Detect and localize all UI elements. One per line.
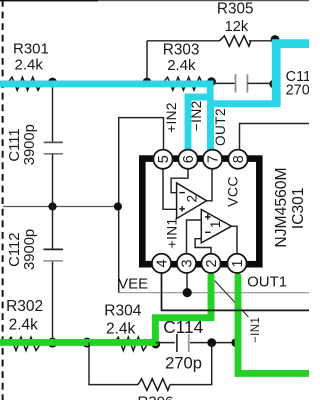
svg-text:C114: C114 (163, 317, 203, 337)
pin 7 circle (203, 150, 222, 169)
svg-text:12k: 12k (225, 19, 249, 35)
svg-text:VCC: VCC (225, 176, 241, 207)
wire R306 branch: down, across, resistor, up (89, 343, 138, 385)
pin 1 circle (227, 254, 246, 273)
wire R305 right to cyan (249, 40, 275, 42)
node dot pin3 / +IN1 (183, 288, 192, 297)
wire +IN1 node horizontal (gray) (119, 292, 309, 294)
resistor R303 (zigzag on cyan rail) (162, 77, 206, 90)
node dot green rail end / C114 left (151, 340, 160, 349)
svg-text:+IN1: +IN1 (164, 218, 179, 249)
svg-text:2: 2 (204, 259, 220, 267)
pin 8 circle (228, 150, 247, 169)
IC301 thick body outline (142, 159, 259, 265)
wire green signal rail (0, 339, 156, 346)
wire R306 right lead up to OUT1 node (170, 343, 212, 385)
svg-text:R304: R304 (104, 302, 141, 319)
pin 6 circle (178, 150, 197, 169)
wire C112 bottom lead (52, 261, 54, 343)
resistor R306 (138, 379, 170, 391)
op-amp U2 + sign (179, 208, 185, 210)
wire R305 branch left vertical (146, 41, 148, 83)
wire +IN2/+IN1 bias node: pin5 top route and left vertical (119, 118, 164, 293)
node dot OUT1 junction (231, 338, 240, 347)
capacitor C113 plates (235, 74, 237, 92)
node dot R305 right junction on cyan corner (271, 35, 280, 44)
wire C114 right lead (190, 342, 236, 344)
svg-text:8: 8 (231, 155, 247, 163)
resistor R305 12k (219, 36, 250, 46)
svg-text:−IN2: −IN2 (189, 100, 204, 131)
pin 2 circle (201, 254, 220, 273)
capacitor C112 plates (43, 248, 63, 250)
svg-text:R306: R306 (138, 394, 174, 401)
leader line -IN1 (215, 281, 249, 318)
pin 5 circle (153, 150, 172, 169)
svg-text:2.4k: 2.4k (106, 321, 136, 338)
svg-text:+IN2: +IN2 (164, 102, 179, 133)
op-amp U2 - sign (179, 192, 185, 194)
wire C114 left lead (156, 342, 175, 344)
op-amp U1 + sign (205, 216, 211, 218)
svg-text:−IN1: −IN1 (249, 317, 262, 343)
wire cyan signal rail to -IN2 (pin 6) (0, 84, 210, 150)
wire op-amp U1 -in to pin 2 (195, 239, 211, 254)
svg-text:1: 1 (208, 221, 223, 229)
wire pin 3 to op-amp U1 +in (187, 220, 202, 254)
node dot R303/C113 junction on cyan rail (207, 77, 216, 86)
wire VEE rail from pin 4 (162, 273, 310, 311)
node dot R303 left junction on cyan rail (143, 78, 152, 87)
wire C111 top lead (52, 84, 54, 142)
wire C113 right lead (247, 82, 273, 84)
svg-text:2.4k: 2.4k (15, 57, 44, 74)
svg-text:NJM4560M: NJM4560M (273, 167, 290, 247)
resistor R302 (zigzag on green rail) (7, 337, 41, 350)
op-amp U1 triangle (201, 210, 231, 243)
wire op-amp U1 output to pin 1 (232, 226, 238, 254)
wire pin 6 to op-amp U2 -in (171, 169, 188, 193)
svg-text:R301: R301 (13, 41, 49, 58)
wire pin 3 down to +IN1 node (186, 273, 188, 293)
wire green from -IN1 (pin 2) to rail (155, 276, 211, 343)
svg-text:OUT1: OUT1 (247, 274, 287, 291)
top crop edge line (0, 0, 309, 2)
svg-text:2: 2 (185, 195, 200, 203)
wire C113 left lead (212, 82, 235, 84)
resistor R304 (zigzag on green rail) (114, 337, 148, 350)
node dot R301/C111 junction on cyan rail (48, 78, 57, 87)
svg-text:3900p: 3900p (22, 124, 38, 165)
cyan arrowhead at OUT2 branch (207, 92, 214, 99)
svg-text:270p: 270p (165, 353, 202, 372)
svg-text:7: 7 (206, 155, 222, 163)
wire R305 top horizontal (147, 40, 220, 42)
svg-text:VEE: VEE (118, 276, 148, 293)
svg-text:C112: C112 (7, 233, 23, 267)
wire green from OUT1 (pin 1) to right edge (238, 276, 310, 373)
node dot R306 branch junction on green rail (82, 338, 92, 348)
wire op-amp U2 output to pin 7 (207, 151, 212, 201)
node dot mid node / left vertical (114, 202, 122, 210)
svg-text:2.4k: 2.4k (167, 57, 196, 74)
svg-text:1: 1 (230, 259, 246, 267)
node dot C113 right junction on cyan vertical (269, 80, 278, 89)
svg-text:4: 4 (154, 259, 170, 267)
wire pin 5 to op-amp U2 +in (163, 169, 177, 210)
svg-text:3900p: 3900p (22, 229, 38, 270)
node dot C111/C112 junction (48, 202, 56, 210)
node dot C114 right junction (207, 338, 216, 347)
pin 3 circle (177, 254, 196, 273)
node dot C112 junction on green rail (48, 338, 58, 348)
wire VCC from pin 8 to right edge (240, 124, 310, 150)
capacitor C111 plates (44, 141, 63, 143)
capacitor C114 plates (176, 334, 178, 352)
svg-text:2.4k: 2.4k (9, 317, 39, 334)
wire mid node horizontal (3, 206, 119, 208)
svg-text:6: 6 (181, 155, 197, 163)
page boundary dashed line (2, 0, 4, 400)
svg-text:5: 5 (156, 155, 172, 163)
pin 4 circle (152, 254, 171, 273)
svg-text:R302: R302 (6, 298, 43, 315)
svg-text:270p: 270p (286, 83, 309, 99)
op-amp U2 triangle (177, 183, 207, 219)
svg-text:C111: C111 (7, 128, 23, 161)
svg-text:OUT2: OUT2 (213, 108, 228, 146)
resistor R301 (zigzag on cyan rail) (7, 77, 42, 90)
wire cyan from right edge down to OUT2 branch (276, 44, 310, 104)
wire C112 top lead (52, 207, 54, 250)
svg-text:R303: R303 (163, 41, 200, 58)
svg-text:3: 3 (179, 259, 195, 267)
wire C111 bottom lead (52, 154, 54, 207)
svg-text:R305: R305 (217, 0, 254, 17)
op-amp U1 - sign (205, 231, 211, 233)
svg-text:IC301: IC301 (290, 187, 307, 229)
